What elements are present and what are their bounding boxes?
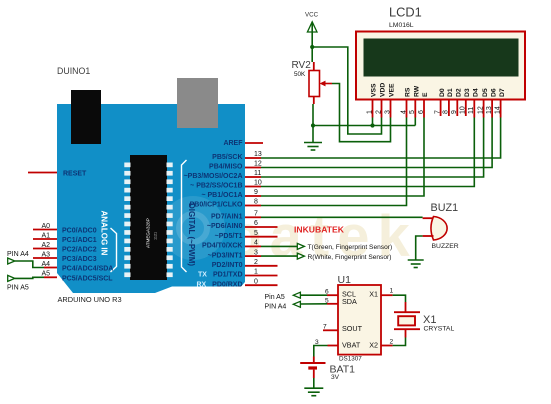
svg-text:~PD6/AIN0: ~PD6/AIN0 bbox=[207, 223, 243, 230]
svg-text:14: 14 bbox=[494, 106, 501, 114]
svg-text:LM016L: LM016L bbox=[389, 22, 414, 29]
svg-text:PC1/ADC1: PC1/ADC1 bbox=[62, 237, 97, 244]
wire D6 to pin12 bbox=[261, 118, 492, 168]
pin stub 8 bbox=[245, 205, 261, 207]
svg-text:DUINO1: DUINO1 bbox=[57, 66, 90, 76]
pin stub A2 bbox=[33, 248, 57, 250]
crystal bottom lead bbox=[405, 329, 407, 337]
U1 pin stubs bbox=[327, 294, 338, 296]
pin stub 0 (nc) bbox=[245, 284, 278, 286]
wire D5 to pin11 bbox=[261, 118, 484, 178]
svg-text:CRYSTAL: CRYSTAL bbox=[424, 326, 455, 333]
IC ATMEGA328P bbox=[130, 155, 167, 280]
power jack bbox=[71, 90, 101, 144]
wire PIN A5 to PC5 bbox=[15, 277, 44, 278]
svg-text:5: 5 bbox=[409, 110, 416, 114]
svg-text:AREF: AREF bbox=[223, 140, 243, 147]
svg-text:PC3/ADC3: PC3/ADC3 bbox=[62, 256, 97, 263]
wire VCC to VDD bbox=[312, 47, 381, 134]
ground buzzer bbox=[408, 260, 424, 268]
svg-text:T(Green, Fingerprint Sensor): T(Green, Fingerprint Sensor) bbox=[308, 244, 393, 251]
pot RV2 top pin bbox=[313, 62, 315, 71]
svg-text:X2: X2 bbox=[369, 341, 378, 350]
pin stub A3 bbox=[33, 257, 57, 259]
svg-text:D2: D2 bbox=[456, 88, 463, 97]
svg-text:X1: X1 bbox=[369, 289, 378, 298]
bracket digital pins bbox=[182, 160, 187, 272]
aref pin stub bbox=[245, 142, 263, 144]
wire U1 X2 to crystal bbox=[393, 338, 406, 346]
svg-text:PD4/T0/XCK: PD4/T0/XCK bbox=[202, 243, 242, 250]
svg-text:3: 3 bbox=[384, 110, 391, 114]
pin stub 2 (nc) bbox=[245, 265, 278, 267]
svg-text:2: 2 bbox=[390, 339, 394, 346]
wire wiper to VEE bbox=[332, 84, 391, 142]
wire pin4 to T terminal bbox=[261, 245, 297, 247]
wire D7 to pin13 bbox=[261, 118, 501, 159]
svg-text:PC5/ADC5/SCL: PC5/ADC5/SCL bbox=[62, 275, 113, 282]
pot RV2 wiper arrow bbox=[323, 83, 332, 85]
ground RV2 bbox=[304, 143, 322, 151]
svg-text:8: 8 bbox=[443, 110, 450, 114]
svg-text:6: 6 bbox=[418, 110, 425, 114]
wire junction down to ground bbox=[312, 126, 314, 143]
terminal R bbox=[297, 253, 304, 259]
IC pins bbox=[124, 163, 130, 168]
pot RV2 bottom pin bbox=[313, 97, 315, 105]
pin stub 5 (nc) bbox=[245, 236, 278, 238]
wire pin7 to buzzer bbox=[261, 216, 423, 218]
svg-text:DS1307: DS1307 bbox=[339, 356, 362, 363]
pin stub A4 bbox=[44, 267, 57, 269]
buzzer leads bbox=[423, 217, 434, 219]
IC U1 DS1307 body bbox=[338, 285, 381, 355]
svg-text:RS: RS bbox=[405, 87, 412, 97]
usb connector bbox=[177, 78, 218, 128]
svg-text:RX: RX bbox=[197, 281, 207, 288]
svg-text:3V: 3V bbox=[331, 374, 340, 381]
svg-text:PC2/ADC2: PC2/ADC2 bbox=[62, 247, 97, 254]
pin stub 1 (nc) bbox=[245, 275, 278, 277]
pin stub 7 bbox=[245, 216, 261, 218]
svg-text:1121: 1121 bbox=[154, 232, 158, 240]
arduino board DUINO1 bbox=[57, 104, 245, 293]
svg-text:ARDUINO UNO R3: ARDUINO UNO R3 bbox=[58, 295, 122, 304]
svg-text:VDD: VDD bbox=[380, 83, 387, 97]
svg-text:Pin A5: Pin A5 bbox=[265, 294, 285, 301]
svg-text:11: 11 bbox=[468, 107, 475, 114]
wire VSS up bbox=[372, 118, 374, 126]
wire RW up bbox=[414, 118, 416, 126]
svg-text:PC4/ADC4/SDA: PC4/ADC4/SDA bbox=[62, 266, 113, 273]
wire RS to pin8 bbox=[261, 118, 407, 206]
svg-text:7: 7 bbox=[434, 110, 441, 114]
wire A5-SCL bbox=[300, 294, 327, 296]
buzzer BUZ1 bbox=[431, 217, 447, 241]
svg-text:PIN A5: PIN A5 bbox=[7, 285, 29, 292]
svg-text:10: 10 bbox=[460, 106, 467, 114]
svg-text:PD0/RXD: PD0/RXD bbox=[212, 281, 242, 288]
wire pin3 to R terminal bbox=[261, 255, 297, 257]
svg-text:INKUBATEK: INKUBATEK bbox=[294, 225, 345, 235]
wire D4 to pin10 bbox=[261, 118, 474, 187]
svg-text:D4: D4 bbox=[473, 88, 480, 97]
svg-text:PD7/AIN1: PD7/AIN1 bbox=[211, 214, 243, 221]
svg-text:VCC: VCC bbox=[305, 12, 319, 19]
svg-text:RV2: RV2 bbox=[292, 60, 312, 71]
wire vcc to pot top bbox=[311, 47, 313, 62]
svg-text:4: 4 bbox=[400, 110, 407, 114]
svg-text:~PD5/T1: ~PD5/T1 bbox=[215, 233, 243, 240]
svg-text:DIGITAL (~PWM): DIGITAL (~PWM) bbox=[187, 203, 196, 266]
svg-text:TX: TX bbox=[198, 272, 207, 279]
ground battery bbox=[304, 388, 323, 396]
pin stub 12 bbox=[245, 167, 261, 169]
svg-text:RESET: RESET bbox=[63, 171, 87, 178]
svg-text:PD1/TXD: PD1/TXD bbox=[213, 272, 243, 279]
wire PIN A4 to PC4 bbox=[15, 261, 44, 268]
wire VBAT to battery bbox=[314, 346, 328, 357]
svg-text:D7: D7 bbox=[499, 88, 506, 97]
svg-text:D5: D5 bbox=[482, 88, 489, 97]
svg-text:SDA: SDA bbox=[342, 297, 357, 306]
node VCC junction bbox=[310, 45, 314, 49]
bracket analog pins bbox=[111, 228, 117, 272]
svg-text:ATMEGA328P: ATMEGA328P bbox=[146, 218, 151, 248]
arduino logo watermark bbox=[161, 196, 225, 260]
LCD LCD1 body bbox=[356, 32, 525, 100]
wire battery to ground bbox=[313, 378, 315, 388]
pin stub 9 bbox=[245, 195, 261, 197]
svg-text:~PD3/INT1: ~PD3/INT1 bbox=[208, 252, 243, 259]
svg-text:~PB3/MOSI/OC2A: ~PB3/MOSI/OC2A bbox=[184, 173, 243, 180]
svg-text:2: 2 bbox=[375, 110, 382, 114]
wire U1 X1 to crystal bbox=[393, 295, 406, 302]
battery BAT1 bbox=[313, 357, 315, 364]
svg-text:D1: D1 bbox=[447, 88, 454, 97]
reset pin stub bbox=[28, 172, 57, 174]
resistor RV2 body bbox=[309, 71, 320, 97]
svg-text:VBAT: VBAT bbox=[342, 341, 361, 350]
svg-text:9: 9 bbox=[451, 110, 458, 114]
svg-text:13: 13 bbox=[486, 106, 493, 114]
svg-text:RW: RW bbox=[414, 85, 421, 97]
pin stub 3 bbox=[245, 255, 261, 257]
svg-text:ANALOG IN: ANALOG IN bbox=[100, 211, 109, 256]
wire A4-SDA bbox=[300, 303, 327, 305]
svg-text:1: 1 bbox=[390, 288, 394, 295]
pin stub A0 bbox=[33, 229, 57, 231]
svg-text:E: E bbox=[422, 92, 429, 97]
svg-text:BUZZER: BUZZER bbox=[432, 243, 459, 250]
svg-text:PB0/ICP1/CLKO: PB0/ICP1/CLKO bbox=[190, 202, 243, 209]
crystal top lead bbox=[405, 302, 407, 312]
pin stub A1 bbox=[33, 238, 57, 240]
svg-text:D0: D0 bbox=[439, 88, 446, 97]
terminal T bbox=[297, 243, 304, 249]
svg-text:PD2/INT0: PD2/INT0 bbox=[212, 262, 243, 269]
pin stub A5 bbox=[44, 276, 57, 278]
svg-text:D6: D6 bbox=[490, 88, 497, 97]
svg-text:PB4/MISO: PB4/MISO bbox=[209, 164, 243, 171]
pin stub 4 bbox=[245, 245, 261, 247]
svg-text:50K: 50K bbox=[294, 71, 306, 78]
svg-text:~ PB2/SS/OC1B: ~ PB2/SS/OC1B bbox=[190, 183, 242, 190]
svg-text:PIN A4: PIN A4 bbox=[7, 251, 29, 258]
svg-text:LCD1: LCD1 bbox=[389, 5, 422, 20]
LCD screen bbox=[364, 39, 519, 77]
crystal X1 bbox=[394, 311, 420, 313]
pin stub 6 (nc) bbox=[245, 226, 278, 228]
svg-text:1: 1 bbox=[366, 110, 373, 114]
svg-text:PC0/ADC0: PC0/ADC0 bbox=[62, 228, 97, 235]
svg-text:VEE: VEE bbox=[389, 83, 396, 97]
svg-text:D3: D3 bbox=[464, 88, 471, 97]
svg-text:R(White, Fingerprint Sensor): R(White, Fingerprint Sensor) bbox=[308, 254, 392, 261]
wire E to pin9 bbox=[261, 118, 424, 197]
node pot-gnd junction bbox=[311, 123, 315, 127]
svg-text:VSS: VSS bbox=[371, 83, 378, 97]
pin stub 11 bbox=[245, 176, 261, 178]
svg-text:12: 12 bbox=[477, 106, 484, 114]
pin stub 10 bbox=[245, 186, 261, 188]
svg-text:BUZ1: BUZ1 bbox=[431, 202, 459, 214]
wire vcc stem bbox=[311, 23, 313, 48]
svg-text:PIN A4: PIN A4 bbox=[265, 304, 287, 311]
svg-text:SOUT: SOUT bbox=[342, 324, 363, 333]
svg-text:~ PB1/OC1A: ~ PB1/OC1A bbox=[201, 192, 242, 199]
wire buzzer to ground bbox=[416, 236, 423, 260]
wire pot bottom to gnd node bbox=[312, 104, 314, 126]
wire gnd bus to VSS and RW bbox=[313, 125, 415, 127]
svg-text:X1: X1 bbox=[423, 314, 436, 326]
pin stub 13 bbox=[245, 157, 261, 159]
svg-text:PB5/SCK: PB5/SCK bbox=[212, 154, 242, 161]
node VSS junction bbox=[370, 123, 374, 127]
